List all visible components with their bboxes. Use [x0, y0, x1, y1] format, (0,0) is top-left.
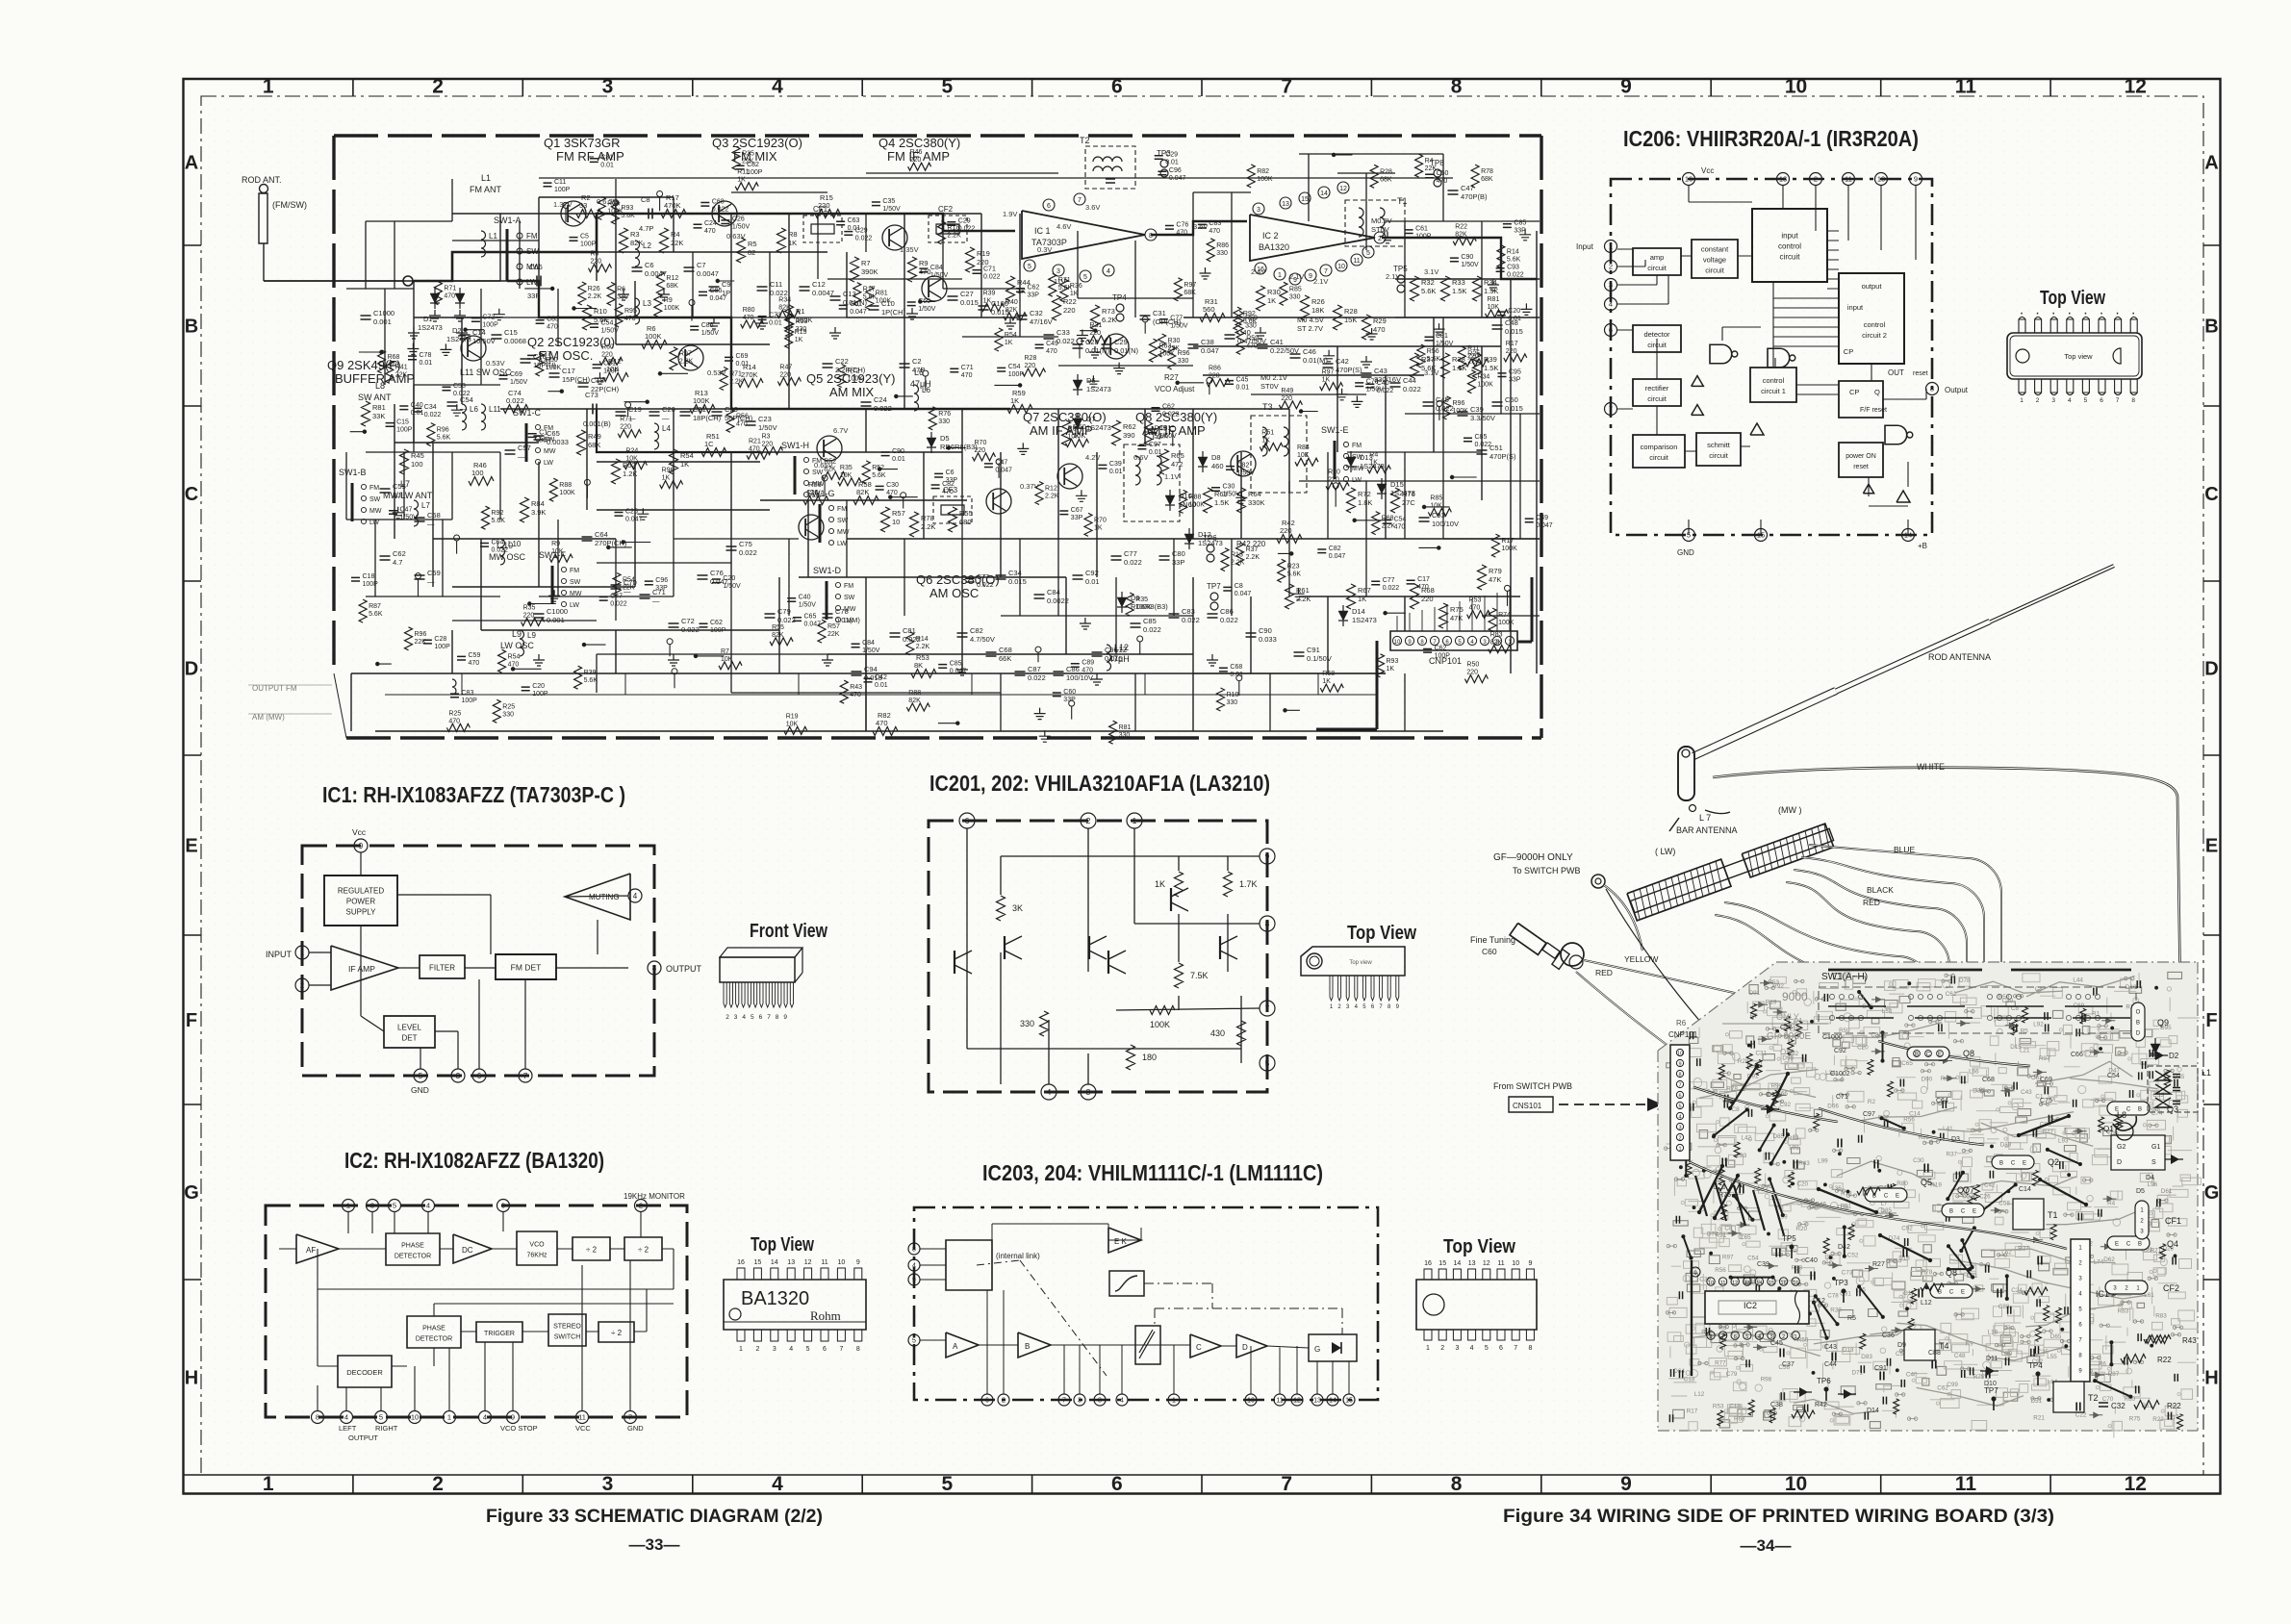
svg-text:D7: D7 — [1086, 415, 1096, 423]
svg-text:C42: C42 — [1336, 357, 1349, 366]
svg-text:TP7: TP7 — [1207, 582, 1221, 591]
svg-text:0.01: 0.01 — [1109, 469, 1123, 475]
svg-text:L3: L3 — [643, 299, 651, 308]
svg-text:(FM/SW): (FM/SW) — [272, 200, 307, 210]
svg-text:6: 6 — [1111, 1473, 1123, 1495]
svg-text:T3: T3 — [1262, 402, 1273, 412]
svg-text:0.01(N): 0.01(N) — [1085, 346, 1110, 355]
svg-text:180: 180 — [1142, 1053, 1157, 1062]
svg-text:C86: C86 — [1066, 665, 1080, 673]
svg-text:1/50V: 1/50V — [1237, 469, 1256, 476]
svg-text:R35: R35 — [742, 151, 754, 158]
svg-text:2: 2 — [1002, 1398, 1005, 1405]
svg-text:C24: C24 — [704, 220, 717, 227]
svg-text:7: 7 — [839, 1346, 843, 1353]
svg-text:C46: C46 — [1303, 347, 1316, 356]
svg-text:÷ 2: ÷ 2 — [586, 1246, 598, 1255]
svg-text:C68: C68 — [999, 646, 1012, 654]
svg-text:D18: D18 — [2000, 1142, 2012, 1149]
svg-text:1.37V: 1.37V — [553, 200, 573, 209]
svg-text:220: 220 — [1506, 348, 1517, 355]
svg-text:C1002: C1002 — [1830, 1071, 1850, 1078]
svg-text:C47: C47 — [400, 507, 413, 514]
svg-text:R85: R85 — [1289, 286, 1302, 292]
svg-text:0.022: 0.022 — [1162, 412, 1180, 419]
svg-text:C95: C95 — [1509, 369, 1521, 376]
svg-text:L96: L96 — [2148, 1181, 2158, 1188]
svg-text:1: 1 — [346, 1202, 350, 1210]
svg-text:9: 9 — [783, 1014, 787, 1021]
svg-text:Figure 34 WIRING SIDE OF PRINT: Figure 34 WIRING SIDE OF PRINTED WIRING … — [1503, 1507, 2054, 1527]
svg-text:R91: R91 — [1716, 1232, 1727, 1239]
svg-text:0.022: 0.022 — [855, 235, 873, 241]
svg-text:470: 470 — [1373, 325, 1386, 334]
svg-text:5: 5 — [1083, 274, 1087, 281]
svg-text:C77: C77 — [1124, 549, 1137, 558]
svg-text:LW: LW — [570, 602, 579, 609]
svg-text:C19: C19 — [628, 405, 642, 414]
svg-text:330: 330 — [617, 293, 628, 300]
svg-text:100K: 100K — [559, 490, 575, 496]
svg-text:8: 8 — [856, 1346, 860, 1353]
svg-text:R61: R61 — [1296, 586, 1310, 595]
svg-text:L2: L2 — [643, 241, 651, 250]
svg-text:33K: 33K — [372, 412, 385, 420]
svg-text:10: 10 — [892, 518, 900, 526]
svg-text:C44: C44 — [1403, 376, 1416, 385]
svg-text:R8: R8 — [788, 230, 798, 239]
svg-text:C92: C92 — [1780, 1102, 1792, 1108]
svg-text:1/50V: 1/50V — [758, 423, 777, 432]
svg-text:3: 3 — [456, 1072, 461, 1080]
svg-text:1K: 1K — [1010, 396, 1019, 405]
svg-text:R12: R12 — [666, 275, 678, 282]
svg-text:0.022: 0.022 — [1377, 388, 1394, 394]
svg-text:R19: R19 — [786, 713, 799, 720]
svg-text:D83: D83 — [1861, 1354, 1872, 1360]
svg-text:460: 460 — [1211, 462, 1224, 470]
svg-text:R19: R19 — [1930, 1182, 1942, 1189]
svg-text:C31: C31 — [1153, 309, 1166, 317]
svg-text:470: 470 — [448, 718, 460, 724]
svg-text:68K: 68K — [1380, 176, 1392, 183]
svg-text:4: 4 — [483, 1413, 487, 1422]
svg-text:1K: 1K — [1369, 460, 1378, 467]
svg-text:0.022: 0.022 — [424, 412, 442, 419]
svg-text:470: 470 — [961, 372, 973, 379]
svg-text:4: 4 — [1609, 300, 1613, 309]
svg-text:C17: C17 — [562, 367, 575, 375]
svg-text:6: 6 — [1047, 203, 1051, 210]
svg-text:C86: C86 — [701, 322, 714, 329]
svg-text:R97: R97 — [679, 351, 692, 358]
svg-text:1S2473: 1S2473 — [1352, 616, 1377, 624]
svg-text:input: input — [1847, 303, 1864, 312]
svg-text:1S2473: 1S2473 — [1390, 489, 1415, 497]
svg-text:CNS101: CNS101 — [1513, 1102, 1542, 1110]
svg-text:R64: R64 — [1248, 490, 1261, 498]
svg-text:—34—: —34— — [1741, 1536, 1792, 1555]
svg-text:1/50V: 1/50V — [510, 379, 528, 386]
svg-text:ROD ANTENNA: ROD ANTENNA — [1928, 652, 1991, 662]
svg-text:FM: FM — [570, 568, 579, 574]
svg-text:1K: 1K — [1261, 438, 1270, 444]
svg-text:1/50V: 1/50V — [1159, 433, 1178, 440]
svg-text:1S2473: 1S2473 — [1086, 423, 1111, 432]
svg-text:•: • — [2052, 312, 2054, 317]
svg-text:—: — — [652, 596, 660, 605]
svg-text:C41: C41 — [1270, 338, 1284, 346]
svg-text:82K: 82K — [824, 466, 836, 472]
svg-text:Q9: Q9 — [2157, 1018, 2169, 1028]
svg-text:5.6K: 5.6K — [1421, 287, 1436, 295]
svg-text:SW1-C: SW1-C — [513, 408, 542, 418]
svg-text:C69: C69 — [2040, 1077, 2052, 1083]
svg-text:B: B — [2138, 1107, 2142, 1113]
svg-text:82K: 82K — [1005, 307, 1018, 314]
svg-text:Top View: Top View — [751, 1234, 814, 1256]
svg-text:6: 6 — [759, 1014, 763, 1021]
svg-text:470: 470 — [1082, 668, 1093, 674]
svg-text:0.01: 0.01 — [411, 410, 424, 417]
svg-text:C29: C29 — [1165, 152, 1178, 159]
svg-text:C40: C40 — [411, 402, 423, 409]
svg-text:68K: 68K — [1481, 176, 1493, 183]
svg-text:12: 12 — [1483, 1260, 1490, 1267]
svg-text:10: 10 — [1677, 1052, 1683, 1057]
svg-text:L7: L7 — [400, 479, 410, 489]
svg-text:1K: 1K — [1322, 377, 1331, 384]
svg-text:R25: R25 — [1467, 350, 1480, 357]
svg-text:7: 7 — [1324, 268, 1328, 275]
svg-text:220: 220 — [1281, 395, 1292, 402]
svg-text:PHASE: PHASE — [422, 1326, 445, 1332]
svg-text:GND: GND — [627, 1424, 644, 1433]
svg-text:0.01: 0.01 — [1085, 577, 1100, 586]
svg-text:13: 13 — [1779, 175, 1787, 184]
svg-text:C37: C37 — [1782, 1361, 1795, 1368]
svg-text:C48: C48 — [1954, 1353, 1966, 1359]
svg-text:220: 220 — [591, 259, 602, 266]
svg-text:R17: R17 — [1501, 538, 1514, 545]
svg-text:0.022: 0.022 — [681, 625, 700, 634]
svg-text:SW1-B: SW1-B — [339, 468, 367, 477]
svg-text:C20: C20 — [723, 575, 735, 582]
svg-text:R92: R92 — [1772, 983, 1784, 990]
svg-text:(internal link): (internal link) — [996, 1252, 1040, 1260]
svg-text:8: 8 — [316, 1413, 319, 1422]
svg-text:M0 2.1V: M0 2.1V — [1260, 373, 1287, 382]
svg-text:1.2K: 1.2K — [623, 469, 637, 478]
svg-text:C53: C53 — [2152, 1092, 2164, 1099]
svg-text:1K: 1K — [983, 297, 992, 304]
svg-text:R65: R65 — [1171, 451, 1184, 460]
svg-text:C77: C77 — [1383, 577, 1395, 584]
svg-text:LW: LW — [844, 618, 853, 624]
svg-text:C43: C43 — [1824, 1344, 1837, 1351]
svg-text:R85: R85 — [1430, 495, 1442, 501]
svg-text:R83: R83 — [2118, 1307, 2129, 1314]
svg-text:5.6K: 5.6K — [1507, 257, 1521, 264]
svg-text:÷ 2: ÷ 2 — [638, 1246, 649, 1255]
svg-text:22K: 22K — [1168, 345, 1181, 352]
svg-text:4.7: 4.7 — [393, 558, 402, 567]
svg-text:Fine Tuning: Fine Tuning — [1470, 935, 1515, 945]
svg-text:VCC: VCC — [575, 1424, 591, 1433]
svg-text:33P: 33P — [1071, 515, 1083, 521]
svg-text:C63: C63 — [848, 217, 860, 224]
svg-text:12: 12 — [2125, 76, 2147, 98]
svg-text:1K: 1K — [1070, 291, 1079, 297]
svg-text:B: B — [1915, 1053, 1919, 1058]
svg-text:(MW ): (MW ) — [1778, 805, 1802, 815]
svg-text:C84: C84 — [930, 265, 943, 271]
svg-text:C30: C30 — [1913, 1157, 1924, 1164]
svg-text:R54: R54 — [623, 577, 635, 584]
svg-text:0.01: 0.01 — [1165, 160, 1179, 166]
svg-text:10: 10 — [1337, 264, 1345, 270]
svg-text:C62: C62 — [1162, 404, 1175, 411]
svg-text:amp: amp — [1650, 253, 1665, 262]
svg-text:C24: C24 — [874, 395, 887, 404]
svg-text:ST 2.7V: ST 2.7V — [1297, 324, 1323, 333]
svg-text:1/50V: 1/50V — [1436, 341, 1454, 347]
svg-text:0.022: 0.022 — [492, 546, 509, 553]
svg-text:1.8K: 1.8K — [1358, 498, 1372, 507]
svg-text:C51: C51 — [1489, 444, 1503, 452]
svg-text:R42: R42 — [1815, 1402, 1827, 1408]
svg-text:C7: C7 — [697, 261, 706, 269]
svg-text:0.047: 0.047 — [625, 516, 643, 522]
svg-text:IC206: VHIIR3R20A/-1 (IR3R20A): IC206: VHIIR3R20A/-1 (IR3R20A) — [1623, 126, 1919, 151]
svg-text:7: 7 — [1721, 1334, 1724, 1340]
svg-text:R9: R9 — [664, 297, 673, 304]
svg-text:11: 11 — [1353, 258, 1360, 265]
svg-text:4.7P: 4.7P — [639, 224, 653, 233]
svg-text:4.7/50V: 4.7/50V — [970, 635, 995, 644]
svg-text:MW: MW — [844, 606, 856, 613]
svg-text:1K: 1K — [1155, 879, 1165, 889]
svg-text:C59: C59 — [427, 569, 441, 577]
svg-text:R9: R9 — [919, 259, 929, 267]
svg-text:C93: C93 — [1507, 265, 1519, 271]
svg-text:82K: 82K — [1490, 640, 1503, 647]
svg-text:R87: R87 — [2108, 1371, 2120, 1378]
svg-text:FILTER: FILTER — [429, 964, 455, 973]
svg-text:R74: R74 — [1498, 612, 1511, 619]
svg-text:100K: 100K — [848, 376, 864, 383]
svg-text:C65: C65 — [1901, 1060, 1913, 1067]
svg-text:100P: 100P — [554, 187, 571, 193]
svg-text:+B: +B — [1918, 542, 1927, 550]
svg-text:1.5K: 1.5K — [1484, 287, 1498, 295]
svg-text:INPUT: INPUT — [266, 950, 293, 959]
svg-text:7.5K: 7.5K — [1190, 971, 1209, 980]
svg-text:C18: C18 — [591, 376, 604, 385]
svg-text:D9: D9 — [1897, 1342, 1906, 1349]
svg-text:2.2K: 2.2K — [916, 644, 930, 650]
svg-text:1: 1 — [1795, 1334, 1797, 1340]
svg-text:5: 5 — [806, 1346, 810, 1353]
svg-text:C82: C82 — [1329, 546, 1341, 552]
svg-text:220: 220 — [1280, 526, 1292, 535]
svg-text:14: 14 — [1329, 1398, 1336, 1405]
svg-text:16: 16 — [737, 1259, 745, 1266]
svg-text:R14: R14 — [916, 636, 929, 643]
svg-text:STEREO: STEREO — [553, 1324, 581, 1331]
svg-text:CF2: CF2 — [938, 205, 954, 214]
svg-text:ST0V: ST0V — [1371, 225, 1389, 234]
svg-text:C29: C29 — [958, 218, 971, 225]
svg-text:7: 7 — [1281, 76, 1292, 98]
svg-text:C58: C58 — [1998, 1200, 2010, 1206]
svg-text:15: 15 — [1438, 1260, 1446, 1267]
svg-text:R52: R52 — [872, 465, 884, 471]
svg-text:D8: D8 — [1211, 453, 1221, 462]
svg-text:C45: C45 — [1236, 376, 1249, 383]
svg-text:R56: R56 — [1903, 1117, 1915, 1124]
svg-text:L 7: L 7 — [1699, 813, 1711, 823]
svg-text:ONLY: ONLY — [1776, 1012, 1799, 1022]
svg-text:1: 1 — [263, 76, 274, 98]
svg-text:D66: D66 — [1827, 1103, 1839, 1109]
svg-text:FM: FM — [1352, 443, 1362, 449]
svg-text:3: 3 — [370, 1202, 374, 1210]
svg-text:—: — — [662, 414, 670, 422]
svg-text:3: 3 — [1609, 281, 1613, 290]
svg-text:1S2473: 1S2473 — [418, 323, 443, 332]
svg-text:1S2473: 1S2473 — [1086, 385, 1111, 393]
svg-text:R39: R39 — [983, 290, 996, 296]
svg-text:1.35V: 1.35V — [900, 245, 919, 254]
svg-text:7: 7 — [1078, 197, 1082, 204]
svg-text:D1: D1 — [423, 315, 433, 323]
svg-text:R75: R75 — [1450, 605, 1464, 614]
svg-text:C62: C62 — [1435, 645, 1447, 651]
svg-text:MUTING: MUTING — [589, 893, 620, 901]
svg-text:C81: C81 — [1159, 425, 1172, 432]
svg-text:0.63V: 0.63V — [726, 232, 746, 241]
svg-text:C: C — [185, 484, 198, 505]
svg-text:0.047: 0.047 — [1536, 522, 1553, 529]
svg-text:3: 3 — [1678, 1126, 1681, 1131]
svg-text:C5: C5 — [580, 233, 589, 240]
svg-text:4: 4 — [1678, 1115, 1681, 1121]
svg-text:11: 11 — [1955, 76, 1977, 98]
svg-text:BA1320: BA1320 — [1259, 242, 1289, 252]
svg-text:5.6K: 5.6K — [584, 677, 598, 684]
svg-text:22K: 22K — [1467, 358, 1480, 365]
svg-text:1K: 1K — [1094, 524, 1103, 531]
svg-text:R76: R76 — [938, 411, 951, 418]
svg-text:R30: R30 — [1267, 288, 1281, 296]
svg-text:L6: L6 — [470, 405, 478, 414]
svg-text:C64: C64 — [595, 530, 608, 539]
svg-text:•: • — [2021, 312, 2023, 317]
svg-text:R84: R84 — [1297, 444, 1310, 451]
svg-text:R6: R6 — [2099, 1360, 2107, 1367]
svg-text:220: 220 — [975, 447, 986, 454]
svg-text:0.01: 0.01 — [1230, 672, 1243, 678]
svg-text:7: 7 — [1265, 1003, 1270, 1013]
svg-text:A: A — [2204, 153, 2218, 174]
svg-text:CNP101: CNP101 — [1668, 1030, 1698, 1039]
svg-text:3: 3 — [1056, 268, 1060, 275]
svg-text:R53: R53 — [796, 318, 808, 325]
svg-text:C40: C40 — [1805, 1257, 1818, 1264]
svg-text:TP6: TP6 — [1203, 534, 1217, 543]
svg-text:L4: L4 — [662, 424, 671, 433]
svg-text:T2: T2 — [2088, 1393, 2099, 1403]
svg-text:100P: 100P — [482, 321, 498, 328]
svg-text:R28: R28 — [1344, 307, 1358, 316]
svg-text:470: 470 — [886, 490, 898, 496]
svg-text:R28: R28 — [1025, 355, 1037, 362]
svg-text:R87: R87 — [369, 603, 381, 610]
svg-text:0.022: 0.022 — [1507, 272, 1524, 279]
svg-text:1/50V: 1/50V — [732, 224, 751, 231]
svg-text:L91: L91 — [1789, 1144, 1799, 1151]
svg-text:B: B — [1949, 1209, 1953, 1215]
svg-text:LW: LW — [544, 460, 553, 467]
svg-text:FM ANT: FM ANT — [470, 185, 502, 194]
svg-text:C39: C39 — [1109, 461, 1122, 468]
svg-text:R37: R37 — [1068, 426, 1081, 433]
svg-text:6: 6 — [1111, 76, 1123, 98]
svg-text:220: 220 — [910, 157, 922, 164]
svg-text:6: 6 — [1678, 1094, 1681, 1100]
svg-text:C77: C77 — [977, 574, 989, 581]
svg-text:470: 470 — [876, 719, 888, 727]
svg-text:MW OSC: MW OSC — [489, 552, 525, 562]
svg-text:15P(CH): 15P(CH) — [562, 375, 591, 384]
svg-text:L1: L1 — [2202, 1068, 2211, 1078]
svg-text:C58: C58 — [427, 511, 441, 520]
svg-text:33P: 33P — [1028, 292, 1040, 299]
svg-text:18P(CH): 18P(CH) — [693, 414, 722, 422]
svg-text:8: 8 — [776, 1014, 779, 1021]
svg-text:Top view: Top view — [2064, 352, 2093, 361]
svg-text:R37: R37 — [1947, 1152, 1958, 1158]
svg-text:5: 5 — [379, 1413, 383, 1422]
svg-text:R62: R62 — [1123, 422, 1136, 431]
svg-text:R82: R82 — [1257, 168, 1269, 175]
svg-text:0.01: 0.01 — [420, 360, 433, 367]
svg-text:C81: C81 — [600, 155, 613, 162]
svg-text:L1: L1 — [481, 173, 491, 183]
svg-text:E: E — [2115, 1242, 2119, 1248]
svg-text:Top View: Top View — [1347, 923, 1416, 944]
svg-text:R83: R83 — [2155, 1313, 2167, 1320]
svg-text:R60: R60 — [601, 343, 614, 350]
svg-text:2: 2 — [432, 76, 444, 98]
svg-text:1/50V: 1/50V — [1170, 323, 1188, 330]
svg-text:220: 220 — [1421, 595, 1434, 603]
svg-text:C40: C40 — [799, 595, 811, 601]
svg-text:D14: D14 — [1867, 1408, 1879, 1414]
svg-text:E: E — [2023, 1161, 2026, 1167]
svg-text:5: 5 — [393, 1202, 396, 1210]
svg-text:C14: C14 — [2019, 1186, 2031, 1193]
svg-text:1: 1 — [1278, 272, 1282, 279]
svg-text:C83: C83 — [462, 690, 474, 697]
svg-text:R56: R56 — [736, 413, 749, 419]
svg-text:3: 3 — [2051, 397, 2055, 404]
svg-text:8: 8 — [1528, 1345, 1532, 1352]
svg-text:R56: R56 — [1715, 1267, 1726, 1274]
svg-text:560: 560 — [1203, 305, 1215, 314]
svg-text:R31: R31 — [1089, 322, 1102, 329]
